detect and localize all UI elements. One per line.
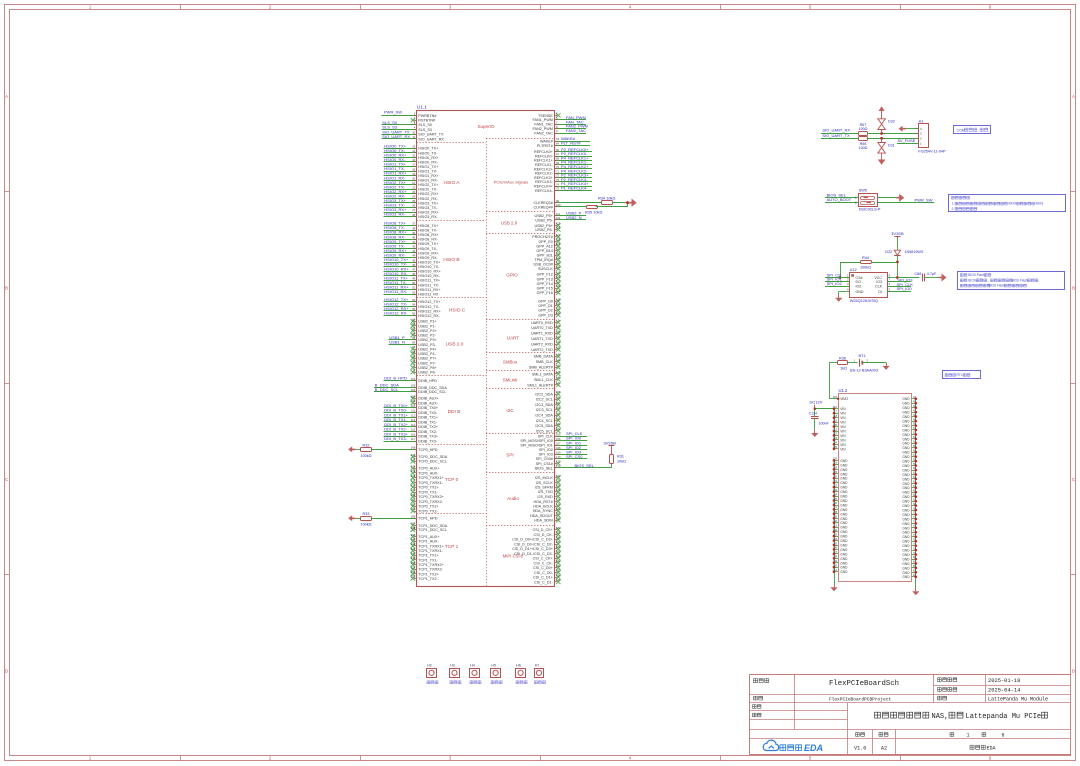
pin 172 BIOS_SEL wire to R31 [555, 467, 612, 469]
svg-text:TCP1_TXRX1-: TCP1_TXRX1- [418, 549, 443, 553]
pin 125 GPP_F12 (right) [556, 272, 560, 276]
pin 124 SUSCLK (right) [556, 267, 560, 271]
pin 55 HSIO12_RX+ (left) [384, 310, 417, 312]
pin 66 REFCLK0+ (right) [555, 151, 593, 153]
svg-text:141: 141 [556, 358, 561, 362]
svg-text:BIOS_SEL: BIOS_SEL [575, 463, 595, 468]
pin 178 TCP0_TX1+ (left) [411, 485, 415, 489]
VIN pins x10 [834, 408, 838, 410]
pin 147 SML1_ALERT# (right) [556, 383, 560, 387]
svg-text:44: 44 [412, 254, 415, 258]
pin 72 REFCLK3+ (right) [555, 177, 593, 179]
svg-text:Lattepanda Mu PCIe: Lattepanda Mu PCIe [966, 713, 1042, 721]
svg-text:61: 61 [913, 471, 916, 475]
pin 175 TCP0_AUX- (left) [411, 471, 415, 475]
pin 167 SPI_MISO/SPI_IO1 (right) [555, 445, 588, 447]
svg-text:TCP0_TX1-: TCP0_TX1- [418, 490, 438, 494]
svg-text:R35 10kΩ: R35 10kΩ [585, 209, 602, 214]
svg-text:HSIO12_RX-: HSIO12_RX- [418, 314, 440, 318]
svg-text:CSI_C_D0+: CSI_C_D0+ [533, 566, 553, 570]
pin 112 USB2_P5- (right) [555, 219, 587, 221]
svg-text:145: 145 [833, 541, 838, 545]
svg-text:USB2_P6-: USB2_P6- [535, 228, 553, 232]
svg-text:BS-12-B3AA003: BS-12-B3AA003 [850, 369, 878, 373]
svg-text:24: 24 [412, 195, 415, 199]
pin 252 TCP1_TX2+ (left) [411, 572, 415, 576]
svg-text:GND: GND [856, 290, 864, 294]
wire R36 left leg [829, 362, 837, 364]
svg-text:70: 70 [412, 359, 415, 363]
junction dot R44/D22 [896, 261, 899, 264]
svg-text:FAN2_PWM: FAN2_PWM [533, 127, 553, 131]
flash U12 W25Q128JVSIQ body [850, 273, 888, 298]
svg-text:64: 64 [556, 142, 559, 146]
right GND pins x41 [912, 398, 916, 400]
wire TX to H1 [868, 138, 919, 140]
svg-text:GND: GND [902, 411, 910, 415]
svg-text:GND: GND [840, 566, 848, 570]
pin 6 FAN1_PWM (right) [555, 119, 587, 121]
svg-text:CSI_D_D1-/CSI_C_D3-: CSI_D_D1-/CSI_C_D3- [514, 552, 554, 556]
svg-text:17: 17 [412, 163, 415, 167]
svg-text:GND: GND [902, 428, 910, 432]
svg-text:182: 182 [556, 516, 561, 520]
svg-text:R44: R44 [862, 256, 869, 260]
pin 44 HSIO9_RX- (left) [384, 257, 417, 259]
svg-text:28: 28 [412, 213, 415, 217]
svg-text:GND: GND [902, 424, 910, 428]
svg-text:140: 140 [833, 519, 838, 523]
svg-text:USB2_P5-: USB2_P5- [535, 218, 553, 222]
svg-text:D31: D31 [888, 144, 895, 148]
svg-text:175: 175 [556, 483, 561, 487]
svg-text:49: 49 [412, 277, 415, 281]
pin 185 TCP1_HPD (left) [371, 518, 416, 520]
resistor R31 10k pull-up [610, 455, 614, 464]
pin 251 TCP1_TXRX2- (left) [411, 567, 415, 571]
svg-text:I2C2_SDA: I2C2_SDA [535, 392, 553, 396]
junction dot TX/D31 [880, 137, 883, 140]
svg-text:GND: GND [840, 539, 848, 543]
pin 166 SPI_MOSI/SPI_IO0 (right) [555, 440, 588, 442]
svg-text:184: 184 [556, 526, 561, 530]
off-page arrow right SW5 [896, 194, 904, 202]
svg-text:22: 22 [412, 185, 415, 189]
svg-text:DDIB_TX1-: DDIB_TX1- [418, 420, 438, 424]
svg-text:UART1_TXD: UART1_TXD [531, 337, 553, 341]
main title text [875, 712, 929, 718]
svg-text:FlexPCIeBoardPCBProject: FlexPCIeBoardPCBProject [829, 696, 891, 702]
pin 17 HSIO1_TX+ (left) [384, 166, 417, 168]
svg-text:147: 147 [833, 550, 838, 554]
svg-text:VIN: VIN [840, 429, 846, 433]
svg-text:37: 37 [412, 222, 415, 226]
svg-text:67: 67 [412, 345, 415, 349]
pin 190 CSI_C_CK+ (right) [556, 556, 560, 560]
svg-text:168: 168 [556, 446, 561, 450]
svg-text:GND: GND [840, 561, 848, 565]
svg-text:GND: GND [902, 517, 910, 521]
svg-text:188: 188 [556, 545, 561, 549]
svg-text:VIN: VIN [840, 425, 846, 429]
svg-text:128: 128 [833, 466, 838, 470]
svg-text:128: 128 [556, 284, 561, 288]
svg-text:,: , [988, 278, 989, 282]
svg-text:251: 251 [411, 565, 416, 569]
svg-text:FG254V-11-04P: FG254V-11-04P [918, 149, 946, 153]
svg-text:GND: GND [902, 486, 910, 490]
svg-text:H5: H5 [491, 663, 496, 667]
svg-text:68: 68 [412, 350, 415, 354]
svg-text:HSIO9_RX+: HSIO9_RX+ [418, 251, 438, 255]
pin 118 GPP_E0 (right) [556, 239, 560, 243]
svg-text:SUSCLK: SUSCLK [538, 267, 553, 271]
svg-text:247: 247 [411, 547, 416, 551]
svg-text:TCP1_TXRX2+: TCP1_TXRX2+ [418, 563, 444, 567]
svg-text:20: 20 [412, 176, 415, 180]
svg-text:R32: R32 [363, 443, 370, 447]
svg-text:70: 70 [913, 511, 916, 515]
version/size row [856, 733, 865, 737]
svg-text:C114: C114 [809, 412, 817, 416]
svg-text:GND: GND [840, 521, 848, 525]
svg-text:HSIO11_TX+: HSIO11_TX+ [418, 279, 440, 283]
pin 50 HSIO11_TX- (left) [384, 284, 417, 286]
svg-text:SIO_UART_TX: SIO_UART_TX [822, 133, 850, 138]
IC right section divider [486, 370, 555, 372]
pin 19 HSIO1_RX+ (left) [384, 175, 417, 177]
pin 72 USB2_P8- (left) [411, 370, 415, 374]
svg-text:TCP1_TX1-: TCP1_TX1- [418, 558, 438, 562]
svg-text:38: 38 [412, 226, 415, 230]
svg-text:BIOS_SEL: BIOS_SEL [535, 466, 553, 470]
svg-text:HSIO12_RX-: HSIO12_RX- [384, 311, 408, 316]
pin 169 TCP0_HPD (left) [371, 449, 416, 451]
svg-text:178: 178 [411, 483, 416, 487]
svg-text:174: 174 [411, 464, 416, 468]
svg-text:167: 167 [556, 441, 561, 445]
pin 188 TCP1_DDC_SCL (left) [411, 528, 415, 532]
svg-text:HSIO1_RX-: HSIO1_RX- [418, 179, 438, 183]
pin 170 SPI_CS0# (right) [555, 458, 588, 460]
svg-text:146: 146 [556, 376, 561, 380]
svg-text:161: 161 [556, 422, 561, 426]
svg-text:GND: GND [840, 459, 848, 463]
svg-text:BIOS: BIOS [1009, 202, 1017, 206]
svg-text:GND: GND [902, 402, 910, 406]
svg-text:GND: GND [902, 419, 910, 423]
svg-text:GPP_D0: GPP_D0 [538, 300, 553, 304]
svg-text:HDA_RST#: HDA_RST# [534, 500, 554, 504]
svg-text:114: 114 [411, 423, 416, 427]
svg-text:GND: GND [840, 535, 848, 539]
pin 162 I2C5_SCL (right) [556, 429, 560, 433]
pin 173 I2S_MCLK (right) [556, 476, 560, 480]
svg-text:HSIO3_RX-: HSIO3_RX- [384, 212, 406, 217]
svg-text:160: 160 [556, 417, 561, 421]
note box BIOS flash [958, 272, 1065, 290]
svg-text:172: 172 [556, 464, 561, 468]
pin 41 HSIO9_TX+ (left) [384, 243, 417, 245]
svg-text:GPP_D3: GPP_D3 [538, 313, 553, 317]
svg-text:H4: H4 [470, 663, 475, 667]
svg-text:39: 39 [412, 231, 415, 235]
svg-text:HSIO9_TX+: HSIO9_TX+ [418, 242, 438, 246]
svg-text:131: 131 [556, 302, 561, 306]
svg-text:HSIO8_TX+: HSIO8_TX+ [418, 224, 438, 228]
pin 171 TCP0_DDC_SDA (left) [411, 455, 415, 459]
svg-text:SPI_IO3: SPI_IO3 [539, 453, 553, 457]
pin 15 HSIO0_RX+ (left) [384, 157, 417, 159]
svg-text:169: 169 [556, 450, 561, 454]
svg-text:124: 124 [833, 441, 838, 445]
svg-text:129: 129 [833, 470, 838, 474]
resistor R66 100ohm [859, 137, 868, 141]
svg-text:DDIB_TX0+: DDIB_TX0+ [418, 406, 438, 410]
TVS diode D31 [881, 138, 883, 142]
svg-text:188: 188 [411, 526, 416, 530]
svg-text:1.: 1. [952, 202, 955, 206]
svg-text:158: 158 [556, 406, 561, 410]
pin 126 GPP_F13 (right) [556, 277, 560, 281]
svg-text:135: 135 [833, 497, 838, 501]
pin 156 I2C2_SCL (right) [556, 397, 560, 401]
svg-text:GND: GND [902, 442, 910, 446]
svg-text:HSIO8_RX-: HSIO8_RX- [418, 238, 438, 242]
pin 134 UART0_RXD (right) [556, 320, 560, 324]
pin 180 TCP0_TXRX2+ (left) [411, 495, 415, 499]
svg-text:A2: A2 [881, 745, 887, 751]
svg-text:UART2_RXD: UART2_RXD [531, 342, 553, 346]
svg-text:127: 127 [833, 461, 838, 465]
U12 left pin CS# [825, 277, 850, 279]
wire DC12V to VIN bus [815, 408, 834, 410]
svg-text:146: 146 [833, 546, 838, 550]
svg-text:RSTBTN#: RSTBTN# [418, 119, 436, 123]
svg-text:185: 185 [556, 531, 561, 535]
svg-text:GND: GND [840, 570, 848, 574]
svg-text:171: 171 [556, 460, 561, 464]
svg-text:PLTRST#: PLTRST# [537, 144, 554, 148]
svg-text:I2C3_SDA: I2C3_SDA [535, 403, 553, 407]
svg-text:143: 143 [833, 532, 838, 536]
pin 111 USB2_P5+ (right) [555, 215, 587, 217]
svg-text:USB2_P4-: USB2_P4- [418, 352, 436, 356]
svg-text:SPI_CS0#: SPI_CS0# [536, 457, 554, 461]
pin 16 HSIO0_RX- (left) [384, 161, 417, 163]
svg-text:CSI_D_D0+/CSI_C_D2+: CSI_D_D0+/CSI_C_D2+ [512, 538, 553, 542]
svg-text:123: 123 [833, 436, 838, 440]
svg-text:162: 162 [556, 427, 561, 431]
power 5V arrow above D32 [881, 111, 883, 119]
svg-text:TCP1_HPD: TCP1_HPD [418, 517, 438, 521]
svg-text:62: 62 [913, 475, 916, 479]
wire SW5 pin3 PWR_SW [878, 202, 935, 204]
svg-text:GND: GND [902, 482, 910, 486]
pin 61 USB2_P1+ (left) [411, 319, 415, 323]
svg-text:V1.0: V1.0 [854, 745, 866, 751]
svg-text:TCP 0: TCP 0 [445, 477, 459, 483]
svg-text:185: 185 [411, 515, 416, 519]
svg-text:GND: GND [902, 522, 910, 526]
svg-text:58: 58 [913, 457, 916, 461]
svg-text:118: 118 [556, 238, 561, 242]
pin 109 DDIB_AUX- (left) [411, 401, 415, 405]
pin 99 CLKREQ3# with resistor R34 [555, 202, 602, 204]
svg-text:187: 187 [556, 540, 561, 544]
svg-text:130: 130 [556, 297, 561, 301]
svg-text:176: 176 [411, 474, 416, 478]
pin 73 REFCLK3- (right) [555, 181, 593, 183]
svg-text:182: 182 [411, 502, 416, 506]
svg-text:EDA: EDA [987, 745, 996, 751]
svg-text:136: 136 [556, 329, 561, 333]
svg-text:R36: R36 [839, 356, 846, 360]
pin 174 TCP0_AUX+ (left) [411, 466, 415, 470]
svg-text:GND: GND [902, 571, 910, 575]
pin 8 FAN2_PWM (right) [555, 128, 587, 130]
svg-text:GND: GND [902, 513, 910, 517]
pin 194 CSI_C_D1+ (right) [556, 575, 560, 579]
svg-text:GND: GND [902, 540, 910, 544]
svg-text:DDIB_TX2-: DDIB_TX2- [418, 430, 438, 434]
svg-text:150: 150 [833, 564, 838, 568]
pin 141 SMB_CLK (right) [556, 360, 560, 364]
pin 63 USB2_P2+ (left) [411, 328, 415, 332]
pin 130 GPP_D0 (right) [556, 299, 560, 303]
pin 146 SML1_CLK (right) [556, 377, 560, 381]
svg-text:74: 74 [913, 529, 916, 533]
svg-text:44: 44 [913, 395, 916, 399]
svg-text:65: 65 [913, 488, 916, 492]
svg-text:71: 71 [556, 169, 559, 173]
svg-text:CLKREQ4#: CLKREQ4# [534, 205, 554, 209]
U12 left pin DO [825, 281, 850, 283]
pin 139 UART2_TXD (right) [556, 347, 560, 351]
svg-text:116: 116 [411, 432, 416, 436]
svg-text:54: 54 [913, 440, 916, 444]
svg-text:GND: GND [902, 557, 910, 561]
pin 129 GPP_F16 (right) [556, 290, 560, 294]
svg-text:63: 63 [556, 137, 559, 141]
svg-text:132: 132 [833, 483, 838, 487]
pin 250 TCP1_TXRX2+ (left) [411, 562, 415, 566]
pin 100 CLKREQ4# with resistor R35 [555, 206, 587, 208]
pin 116 DDIB_TX3+ (left) [384, 436, 417, 438]
pin 183 TCP0_TX2- (left) [411, 509, 415, 513]
pin 74 REFCLK4+ (right) [555, 186, 593, 188]
pin 186 CSI_D_D0+/CSI_C_D2+ (right) [556, 537, 560, 541]
pin 122 TPM_IRQ# (right) [556, 257, 560, 261]
svg-text:FAN2_TAC: FAN2_TAC [534, 131, 553, 135]
svg-text:72: 72 [556, 174, 559, 178]
note box switch explanation [949, 195, 1066, 212]
svg-text:165: 165 [556, 432, 561, 436]
svg-text:HSIO10_RX-: HSIO10_RX- [418, 274, 440, 278]
svg-text:GPP_F13: GPP_F13 [537, 277, 553, 281]
svg-text:CSI_C_D0-: CSI_C_D0- [534, 571, 554, 575]
svg-text:HSIO0_TX-: HSIO0_TX- [418, 151, 438, 155]
svg-text:VIN: VIN [840, 416, 846, 420]
svg-text:B: B [5, 286, 8, 291]
svg-text:147: 147 [556, 381, 561, 385]
pin 145 SML1_DATA (right) [556, 372, 560, 376]
svg-text:SMLink: SMLink [503, 378, 518, 383]
svg-text:155: 155 [556, 390, 561, 394]
svg-text:CSI_C_D1-: CSI_C_D1- [534, 580, 554, 584]
svg-text:52: 52 [412, 290, 415, 294]
svg-text:USB2_P1+: USB2_P1+ [418, 320, 436, 324]
svg-text:USB2_P7-: USB2_P7- [418, 361, 436, 365]
pin 114 DDIB_TX2+ (left) [384, 426, 417, 428]
svg-text:64: 64 [412, 331, 415, 335]
svg-text:HSIO11_RX-: HSIO11_RX- [384, 289, 408, 294]
svg-text:18: 18 [412, 167, 415, 171]
pin 49 HSIO11_TX+ (left) [384, 280, 417, 282]
pin 192 CSI_C_D0+ (right) [556, 565, 560, 569]
svg-text:HSIO2_TX-: HSIO2_TX- [418, 188, 438, 192]
pin 64 PLTRST# (right) [555, 145, 591, 147]
svg-text:103: 103 [411, 377, 416, 381]
svg-text:CSI_D_D1+/CSI_C_D3+: CSI_D_D1+/CSI_C_D3+ [512, 547, 553, 551]
svg-text:45: 45 [412, 258, 415, 262]
svg-text:113: 113 [556, 222, 561, 226]
pin 108 DDIB_AUX+ (left) [411, 396, 415, 400]
svg-text:GND: GND [902, 549, 910, 553]
svg-text:53: 53 [412, 298, 415, 302]
ground below D31 [881, 153, 883, 159]
svg-text:71: 71 [412, 364, 415, 368]
svg-text:HDA_SYNC: HDA_SYNC [533, 509, 553, 513]
svg-text:PCIe/mAux Signals: PCIe/mAux Signals [494, 180, 528, 185]
svg-text:190: 190 [556, 554, 561, 558]
svg-text:125: 125 [556, 271, 561, 275]
resistor R67 100ohm [859, 132, 868, 136]
svg-text:SMB_CLK: SMB_CLK [536, 360, 554, 364]
pin 43 HSIO9_RX+ (left) [384, 252, 417, 254]
svg-text:GND: GND [840, 512, 848, 516]
svg-text:114: 114 [556, 226, 561, 230]
svg-text:149: 149 [833, 559, 838, 563]
resistor R32 100k [353, 449, 361, 451]
svg-text:105: 105 [411, 384, 416, 388]
pin 54 HSIO12_TX- (left) [384, 306, 417, 308]
dip switch SW5 DSIC02LS-P [859, 194, 878, 207]
svg-text:GPIO: GPIO [506, 273, 518, 278]
svg-text:187: 187 [411, 522, 416, 526]
svg-text:166: 166 [556, 437, 561, 441]
resistor R36 1k [838, 361, 848, 365]
svg-text:21: 21 [412, 181, 415, 185]
svg-text:174: 174 [556, 479, 561, 483]
svg-text:99: 99 [556, 199, 559, 203]
svg-text:GND: GND [902, 415, 910, 419]
pin 161 I2C5_SDA (right) [556, 423, 560, 427]
pin 10 SIO_UART_TX (left) [382, 134, 417, 136]
wire junction to R44 [871, 262, 897, 264]
svg-text:H3: H3 [450, 663, 455, 667]
svg-text:123: 123 [556, 260, 561, 264]
svg-text:PWR_SW: PWR_SW [384, 109, 402, 114]
svg-text:59: 59 [913, 462, 916, 466]
svg-text:I2C5_SCL: I2C5_SCL [536, 429, 553, 433]
svg-text:119: 119 [556, 242, 561, 246]
svg-text:GPP_A12: GPP_A12 [536, 244, 552, 248]
svg-text:GPP_D2: GPP_D2 [538, 309, 553, 313]
svg-text:84: 84 [913, 573, 916, 577]
off-page arrow left TCP0 [348, 446, 355, 452]
svg-text:HDA_BCLK: HDA_BCLK [533, 505, 553, 509]
